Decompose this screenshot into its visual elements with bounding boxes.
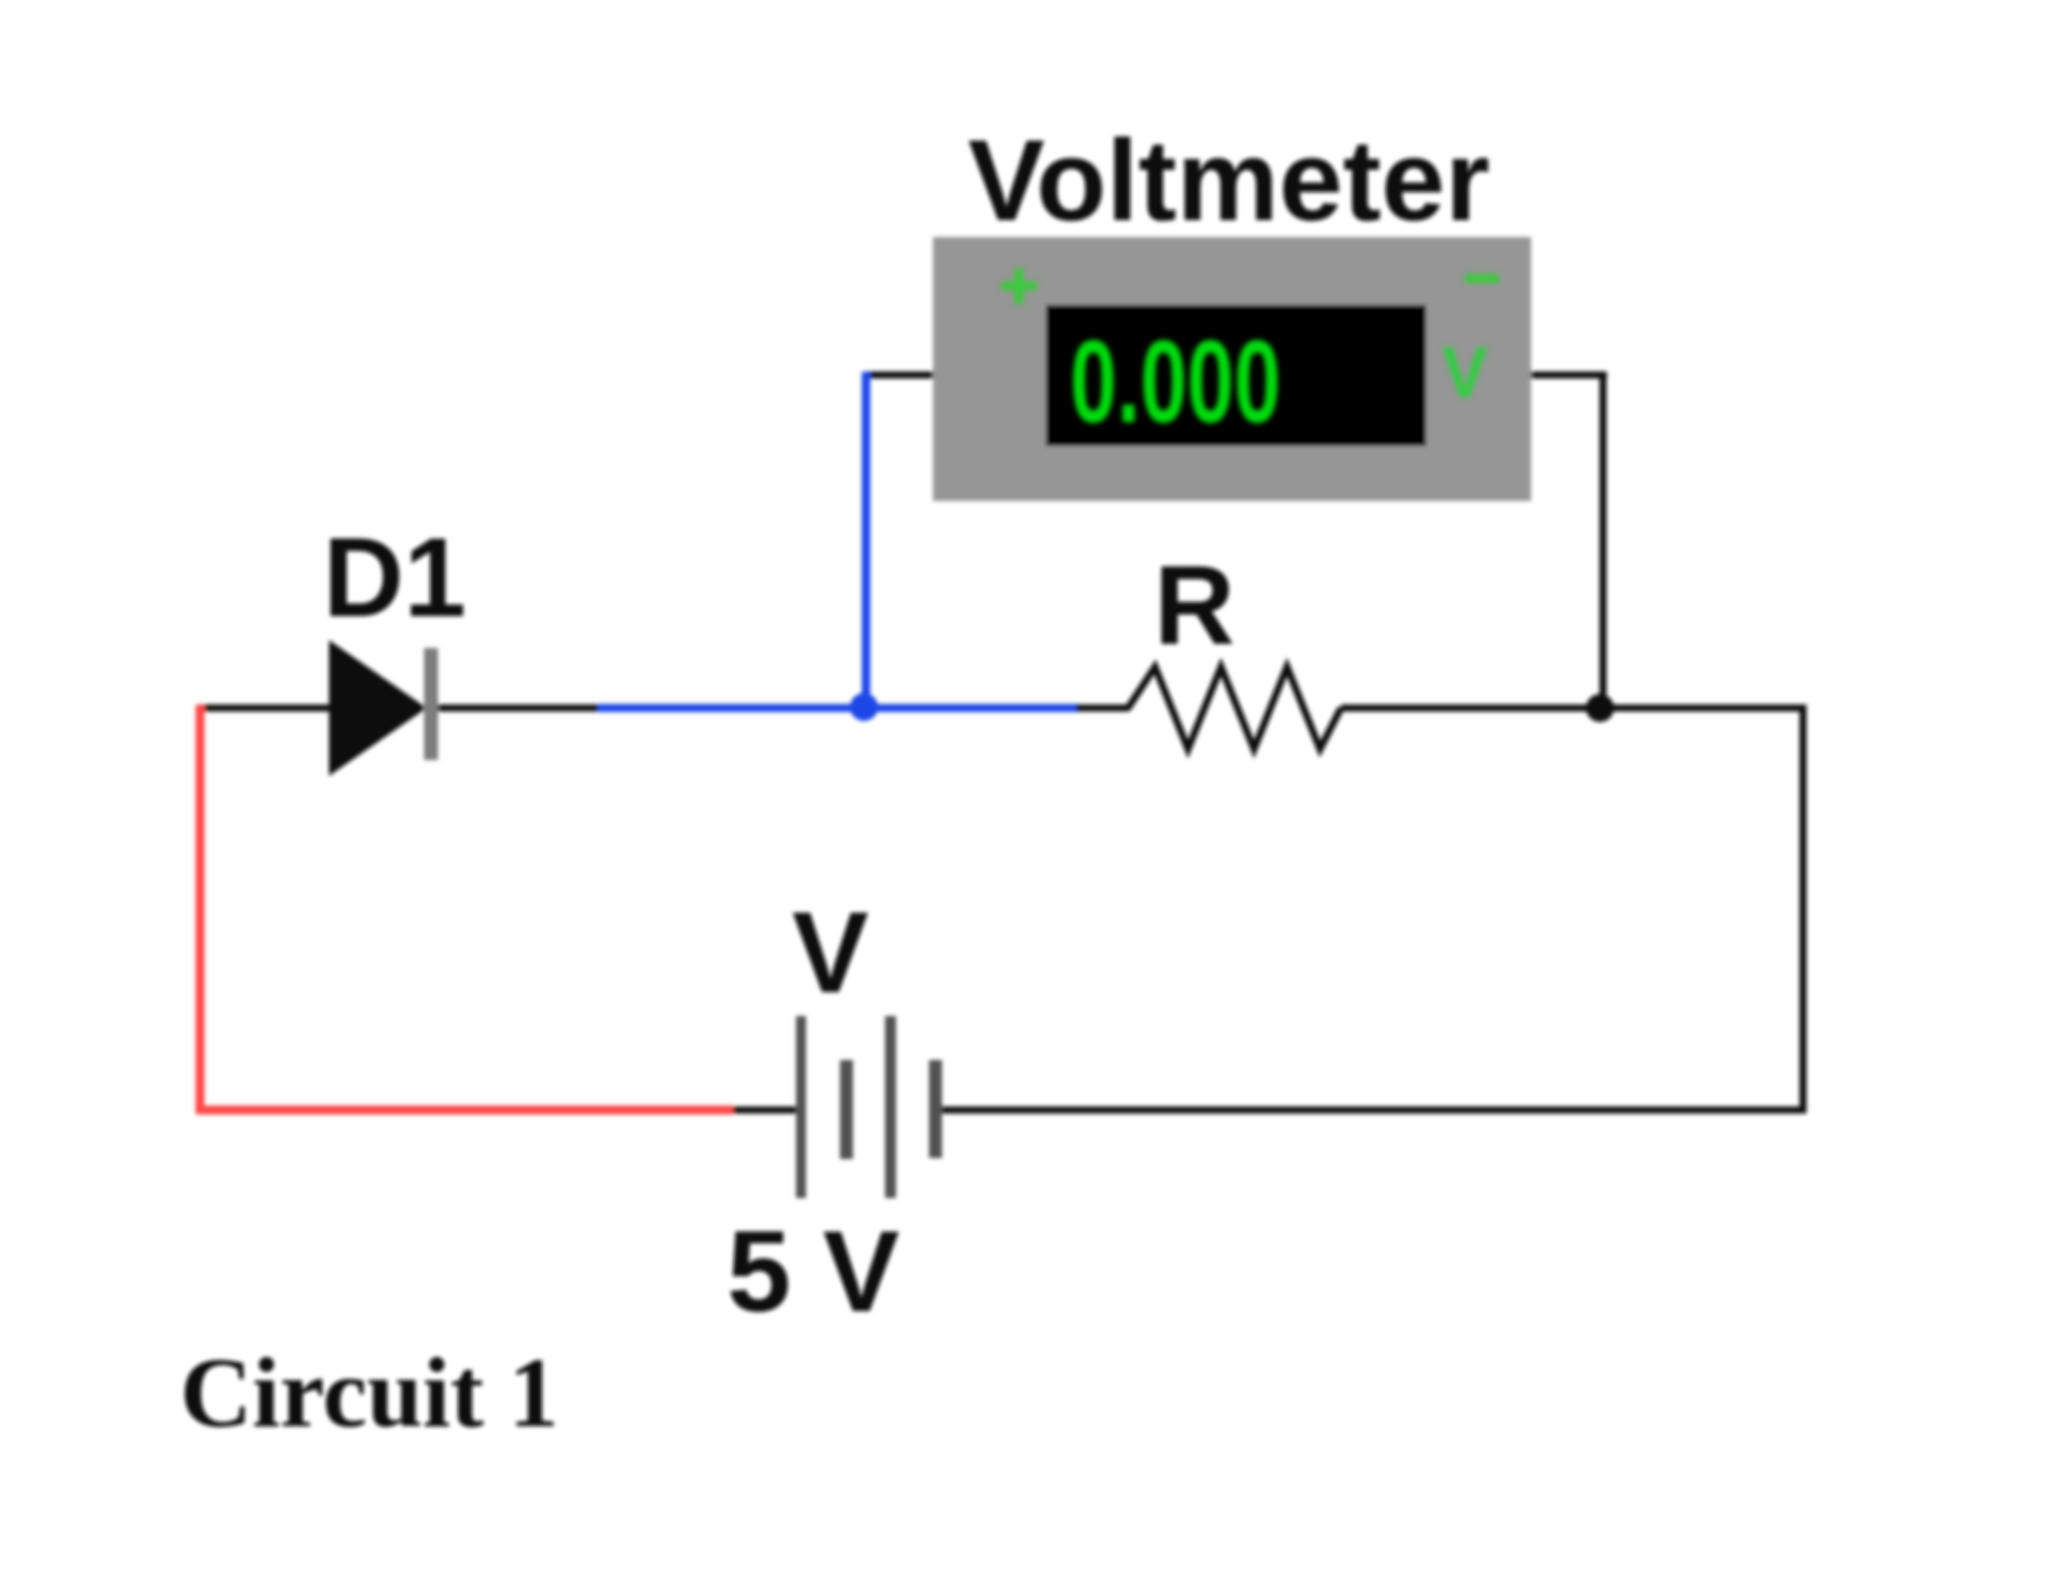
- voltmeter body (gray box): [933, 237, 1531, 501]
- battery V: short plate 2: [929, 1060, 942, 1158]
- junction dot on main wire (black): [1586, 694, 1614, 722]
- wire: left black segment from red corner to diode anode: [197, 705, 332, 712]
- battery V: long plate 2: [885, 1016, 896, 1198]
- wire: blue vertical from voltmeter left stub down to node A: [862, 372, 871, 710]
- svg-text:Voltmeter: Voltmeter: [968, 117, 1490, 245]
- svg-text:R: R: [1154, 543, 1235, 668]
- wire: black segment diode cathode to blue wire start: [436, 705, 600, 712]
- svg-text:0.000: 0.000: [1070, 316, 1281, 447]
- voltmeter plus terminal mark: [1001, 268, 1037, 304]
- diode D1 cathode bar (gray): [424, 648, 438, 760]
- voltmeter minus terminal mark: [1465, 274, 1499, 283]
- wire: black vertical from voltmeter right stub down to main wire: [1600, 372, 1607, 710]
- wire: black segment blue end to resistor: [1076, 705, 1130, 712]
- wire: bottom right horizontal to battery: [941, 1107, 1807, 1114]
- svg-text:Circuit 1: Circuit 1: [180, 1337, 559, 1448]
- wire: voltmeter right stub black: [1531, 372, 1607, 379]
- wire: red bottom horizontal: [196, 1106, 733, 1115]
- battery V: short plate 1: [840, 1060, 853, 1159]
- svg-text:D1: D1: [323, 515, 466, 640]
- svg-text:5 V: 5 V: [727, 1208, 900, 1336]
- wire: red left vertical: [196, 705, 205, 1113]
- diode D1 triangle (anode): [330, 642, 425, 774]
- wire: blue segment from diode side to resistor side (node A): [598, 704, 1078, 712]
- voltmeter display (black): [1046, 305, 1426, 446]
- svg-text:V: V: [1442, 331, 1488, 412]
- battery V: long plate 1: [796, 1016, 806, 1198]
- wire: right vertical black down to battery level: [1800, 708, 1807, 1114]
- wire: battery left lead black: [733, 1107, 797, 1114]
- wire: black segment resistor to right corner: [1341, 705, 1807, 712]
- node A junction dot (blue): [850, 693, 878, 721]
- wire: voltmeter left stub black: [864, 372, 934, 379]
- resistor R zigzag: [1128, 667, 1341, 749]
- svg-text:V: V: [792, 889, 869, 1017]
